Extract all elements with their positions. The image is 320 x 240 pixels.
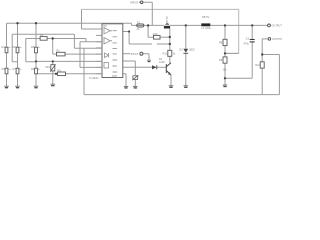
svg-text:OUTPUT: OUTPUT [272, 25, 282, 28]
diode box col3 lower [35, 68, 38, 74]
svg-text:5v: 5v [8, 47, 11, 49]
svg-text:INPUT: INPUT [130, 0, 139, 4]
wire Q1 gate column [169, 28, 171, 63]
svg-text:5v: 5v [19, 69, 22, 71]
wire row61 line [36, 60, 102, 62]
wire col3 drop [35, 23, 37, 86]
diode box col2 upper [16, 47, 19, 53]
wire trimpot tap [52, 61, 54, 84]
wire input drop [143, 2, 152, 25]
inductor L1 [201, 23, 210, 26]
wire row73.8 right to ground [123, 74, 126, 87]
svg-text:OUTPUT: OUTPUT [272, 38, 282, 41]
wire D2 row [123, 66, 167, 68]
IC ref label [103, 25, 107, 27]
fuse inner line [137, 24, 144, 26]
resistor divider upper [223, 39, 227, 45]
wire ground link to cap [225, 77, 252, 79]
wire fb tap [225, 52, 239, 54]
resistor R3 [58, 72, 66, 76]
wire fb bundle vertical [82, 9, 103, 29]
svg-text:R10: R10 [153, 33, 158, 36]
trimpot arrow [50, 64, 55, 71]
wire Q2 emitter to ground [170, 75, 172, 86]
svg-text:R11: R11 [163, 53, 168, 56]
wire rail L1 to terminal [210, 24, 267, 26]
wire output cap column [251, 25, 253, 78]
svg-text:R9: R9 [219, 59, 223, 62]
output terminal 2 [268, 38, 271, 41]
ground divider [223, 84, 228, 86]
svg-text:5v: 5v [19, 47, 22, 49]
svg-text:10k: 10k [223, 68, 228, 71]
wire bleeder column [261, 55, 263, 95]
wire fuse to Q1 [144, 24, 164, 26]
output terminal 1 [268, 24, 271, 27]
wire neg return [262, 55, 279, 95]
diode box col2 lower [16, 68, 19, 74]
svg-text:470u: 470u [243, 43, 249, 46]
input terminal [140, 1, 143, 4]
fuse F1 [137, 24, 144, 27]
svg-text:2A: 2A [137, 28, 140, 31]
wire bus2a [12, 34, 102, 61]
svg-text:4148: 4148 [159, 61, 165, 64]
Q1 switch body [164, 26, 170, 29]
svg-text:5v: 5v [38, 69, 41, 71]
ground col2 [15, 85, 20, 87]
svg-text:TL494C: TL494C [89, 76, 99, 80]
diode box col1 upper [5, 47, 8, 53]
svg-text:RT/CT: RT/CT [131, 52, 139, 56]
wire ground return bundle [80, 42, 102, 95]
trimpot body [51, 65, 55, 71]
svg-text:VR1: VR1 [45, 66, 50, 69]
svg-text:5v: 5v [8, 69, 11, 71]
diode box col1 lower [5, 68, 8, 74]
wire bottom return [84, 94, 279, 96]
wire col1 drop [6, 23, 8, 86]
resistor divider lower [223, 57, 227, 63]
wire D speedup row [129, 26, 170, 45]
wire row73.8 line [36, 73, 102, 75]
resistor base divider vertical [168, 50, 172, 56]
svg-text:FB 5V: FB 5V [202, 15, 210, 19]
cap thing near IC [133, 76, 138, 80]
wire R base row [160, 36, 170, 38]
ground Q2 emitter [169, 85, 174, 87]
IC comparator triangle 1 [104, 28, 112, 35]
resistor R1 on bus2b [40, 37, 47, 41]
wire divider column [224, 25, 226, 85]
svg-text:L1 220u: L1 220u [202, 26, 212, 30]
resistor base drive horizontal [154, 35, 161, 39]
Q1 top marks [165, 23, 169, 24]
IC comparator triangle 2 [104, 38, 112, 45]
ground D3 [184, 85, 189, 87]
Q2 NPN transistor [166, 63, 171, 75]
wire col2 drop [17, 23, 19, 86]
svg-text:R8: R8 [219, 41, 223, 44]
ground trimpot [51, 83, 56, 85]
svg-text:1k: 1k [173, 53, 176, 56]
svg-text:B772: B772 [165, 16, 169, 23]
svg-text:C3: C3 [246, 38, 250, 41]
wire freewheel D3 column [185, 25, 187, 85]
svg-text:5822: 5822 [189, 49, 195, 52]
D2 base diode [152, 65, 157, 69]
svg-text:D3: D3 [179, 49, 183, 52]
diode box col3 upper [35, 47, 38, 53]
wire test point stub [123, 53, 131, 55]
feedback bus (light) [82, 9, 239, 53]
wire IC left stub pin2 [96, 34, 102, 36]
wire row61 right to cap thing [123, 61, 136, 86]
freewheel diode D3 [183, 49, 188, 53]
ground col3 [34, 85, 39, 87]
IC U1 body [102, 24, 123, 78]
resistor R2 [57, 52, 66, 56]
wire VCC bus1 [7, 22, 132, 24]
IC inner box symbol [104, 63, 109, 69]
TP mini ground [147, 59, 151, 61]
ground col1 [4, 85, 9, 87]
IC left pin stubs [96, 29, 102, 74]
junction dots [16, 22, 263, 80]
ground row73.8 [124, 85, 129, 87]
test point circle [140, 52, 143, 55]
svg-text:5v: 5v [38, 47, 41, 49]
IC inner diode symbol [105, 53, 109, 58]
wire bus2b [26, 39, 102, 62]
resistor bleeder [260, 62, 264, 68]
wire TP cap to mini ground [143, 54, 149, 60]
wire rail Q1 to L1 [170, 24, 201, 26]
wire IC right stub pin2 [123, 32, 129, 45]
wire branch R2 row [53, 39, 102, 55]
IC right pin label smudges [112, 31, 117, 76]
output cap C plates [250, 39, 255, 41]
wire terminal2 branch [262, 39, 268, 55]
ground cap thing [133, 85, 138, 87]
svg-text:R12: R12 [255, 64, 260, 67]
wire fuse branch from bus1 [132, 23, 137, 25]
